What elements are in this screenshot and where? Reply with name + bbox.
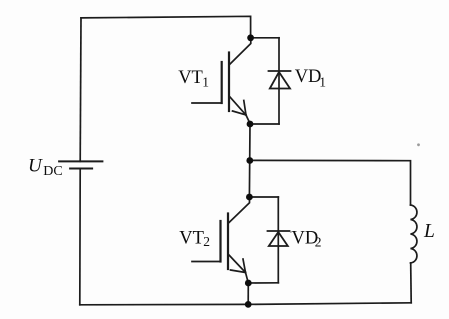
wire VD2 top connection [249,196,278,198]
label VD2 [292,228,322,249]
svg-text:U: U [28,155,43,176]
wire VD1 bottom connection [250,123,279,125]
svg-text:L: L [423,221,435,242]
wire VT2 emitter to bottom rail [247,283,249,304]
node bottom junction [245,301,252,308]
svg-text:VT: VT [179,228,204,248]
diode VD1 [269,71,291,89]
node VT1 collector [247,34,254,41]
diode VD2 [268,231,290,246]
label L [423,221,435,242]
wire load branch bottom [410,263,413,303]
node VT1 emitter / VD1 anode [247,121,254,128]
wire mid axis (VT1 emitter to VT2 collector) [248,124,251,197]
node VT2 emitter / VD2 anode [245,280,252,287]
svg-text:1: 1 [319,75,326,90]
svg-text:2: 2 [315,235,322,250]
wire load branch top [250,160,411,205]
label VD1 [295,67,326,90]
svg-text:VD: VD [295,67,322,87]
wire VD1 branch vertical [278,38,280,124]
svg-text:2: 2 [203,234,210,249]
wire left lower (battery - to bottom rail) [79,169,81,305]
svg-text:1: 1 [202,75,209,90]
wire left upper (top rail to battery +) [79,18,82,162]
transistor VT2 (IGBT) [192,197,250,283]
transistor VT1 (IGBT) [192,38,251,124]
battery U_DC [59,161,102,168]
node VT2 collector / VD2 cathode [246,194,253,201]
label VT1 [178,68,209,90]
wire VD2 bottom connection [248,282,278,284]
inductor L [411,205,417,263]
scan speck near VD2 cathode bar [290,231,292,233]
wire VD2 branch vertical [277,197,279,283]
svg-text:VT: VT [178,68,203,88]
wire VD1 top connection [251,37,279,39]
wire bottom rail [80,303,411,305]
wire top (left rail to VT1 collector) [81,16,251,37]
label U_DC [28,155,63,179]
scan speck near right branch [417,143,420,146]
node load tap [246,157,253,164]
label VT2 [179,228,210,249]
svg-text:DC: DC [43,164,62,179]
